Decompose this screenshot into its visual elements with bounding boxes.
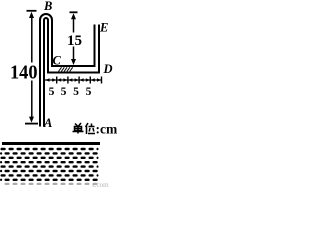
svg-text:5: 5 (73, 86, 79, 98)
svg-text:5: 5 (61, 86, 67, 98)
svg-text:140: 140 (10, 62, 37, 84)
svg-text:s.com: s.com (92, 181, 109, 188)
svg-text:C: C (53, 54, 62, 68)
svg-text:15: 15 (67, 33, 82, 49)
svg-text::cm: :cm (96, 122, 118, 137)
svg-text:5: 5 (49, 86, 55, 98)
svg-text:5: 5 (86, 86, 92, 98)
svg-text:E: E (99, 21, 108, 35)
svg-text:D: D (103, 62, 113, 76)
svg-text:A: A (43, 116, 52, 130)
svg-text:B: B (43, 0, 52, 13)
